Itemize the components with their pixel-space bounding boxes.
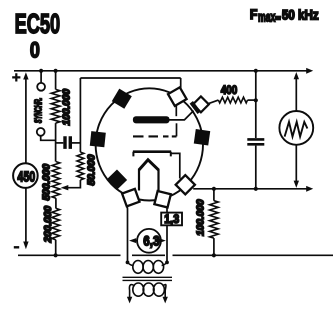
plus sign — [12, 73, 20, 81]
terminal SYNCHR lower — [37, 128, 45, 136]
grid riser lower segment — [176, 123, 178, 136]
svg-text:=: = — [276, 13, 281, 23]
pin 7 white lower-right (cathode) — [176, 175, 195, 194]
cathode end ticks — [133, 152, 170, 157]
wire left rail lower segment — [25, 188, 27, 242]
arrow 6,3 left — [134, 240, 138, 242]
svg-text:EC50: EC50 — [15, 8, 61, 39]
cathode lead to pin — [171, 153, 180, 178]
pin 9 white bottom-left (heater) — [122, 189, 139, 206]
pin 4 black right — [194, 129, 210, 145]
wire pin6 to R5 — [208, 100, 219, 104]
svg-text:500.000: 500.000 — [42, 164, 53, 201]
svg-text:50 kHz: 50 kHz — [282, 8, 319, 23]
svg-text:100.000: 100.000 — [61, 89, 72, 126]
wire mid line to R6 — [213, 189, 215, 201]
node top rail / synchr terminal — [39, 69, 43, 73]
anode lead to pin — [169, 111, 194, 120]
box 1,3 V — [161, 213, 182, 226]
wire rail to synchr terminal — [40, 71, 42, 83]
wire R2 to R3 — [55, 198, 57, 208]
transformer T1 mains winding — [133, 283, 144, 296]
node R5 / C2 branch — [254, 98, 258, 102]
resistor R1 100.000 — [51, 89, 60, 123]
capacitor C2 — [247, 139, 264, 144]
grid riser upper stub — [175, 106, 177, 116]
svg-text:1,3: 1,3 — [164, 214, 179, 227]
svg-text:50.000: 50.000 — [86, 154, 97, 185]
arrow mains lead right — [163, 297, 168, 304]
node top rail / C2 branch — [254, 69, 258, 73]
wire M1 down to mid line with arrow — [295, 145, 297, 181]
svg-text:450: 450 — [17, 168, 35, 185]
transformer T1 heater winding — [126, 261, 130, 265]
arrow 6,3 right — [161, 240, 163, 242]
capacitor C1 — [65, 136, 70, 149]
pin 2 black left — [90, 131, 106, 147]
wire M1 up to rail with arrow — [295, 79, 297, 111]
pin 1 black top-left — [112, 89, 132, 109]
svg-text:F: F — [250, 6, 258, 22]
node R6 / bottom rail — [212, 253, 216, 257]
wire R5 to C2 node — [248, 99, 256, 101]
node top rail / R1 — [54, 69, 58, 73]
heater supply 6,3 V circle — [137, 229, 161, 253]
arrow down at bottom of left rail — [23, 242, 28, 250]
arrow mains lead left — [127, 297, 132, 304]
terminal SYNCHR upper — [37, 83, 45, 91]
arrow up at top of left rail — [23, 72, 28, 79]
resistor R4 50.000 — [77, 152, 84, 180]
potentiometer R2 500.000 — [52, 162, 60, 199]
resistor R3 200.000 — [52, 208, 60, 239]
node R3 / bottom rail — [54, 253, 58, 257]
transformer T1 core — [123, 277, 173, 280]
resistor R6 100.000 — [210, 201, 219, 238]
battery B1 450 V circle — [13, 163, 38, 188]
meter M1 sawtooth indicator — [279, 111, 313, 145]
wire rail down to C2 — [255, 71, 257, 138]
node C2 / mid line — [254, 187, 258, 191]
anode plate bar — [133, 116, 170, 123]
wire bottom rail — [18, 254, 333, 256]
wire pin8 heater lead right — [166, 207, 168, 213]
grid cap black bar — [191, 102, 199, 112]
svg-text:max: max — [258, 10, 276, 26]
wire node A to capacitor C1 — [56, 142, 64, 144]
resistor R5 400 — [218, 97, 247, 103]
svg-text:SYNCHR.: SYNCHR. — [31, 98, 43, 124]
wire left rail upper segment — [25, 79, 27, 164]
pin 3 black lower-left — [106, 169, 127, 190]
wire C1 to 50k branch — [72, 142, 81, 144]
grid dashed electrode — [133, 135, 177, 137]
wire R6 to bottom rail — [213, 238, 215, 255]
wire rail to R1 — [55, 71, 57, 90]
tube V1 envelope — [96, 88, 203, 200]
arrow wiper into R2 — [61, 185, 69, 190]
node mid line / R6 — [212, 187, 216, 191]
wire pin9 heater lead left — [126, 206, 129, 262]
arrow right end of mid line — [306, 186, 313, 192]
heater filament tent — [139, 160, 159, 170]
wire C2 to mid line — [255, 146, 257, 189]
wire R1 to node A — [55, 123, 57, 162]
wire 50k branch vertical — [79, 78, 81, 152]
pin 8 white bottom-right (heater) — [154, 191, 170, 207]
wire below 1,3 box — [166, 225, 168, 262]
wire R3 to bottom rail — [55, 240, 57, 256]
wire synchr lower terminal to node A — [41, 136, 56, 140]
arrow right end of top rail — [306, 68, 313, 74]
wire mid line (cathode output) — [193, 188, 307, 190]
wire top supply rail (+) — [14, 70, 307, 72]
cathode bar — [133, 150, 171, 153]
svg-text:6,3: 6,3 — [143, 232, 159, 248]
svg-text:400: 400 — [221, 84, 238, 97]
minus sign — [14, 246, 19, 248]
svg-text:100.000: 100.000 — [196, 199, 207, 236]
wire R4 to wiper — [63, 180, 81, 188]
wire grid feed top (y78) — [80, 78, 180, 91]
pin 5 white top (grid) — [168, 87, 187, 106]
svg-text:0: 0 — [30, 39, 40, 63]
svg-text:200.000: 200.000 — [43, 206, 54, 244]
pin 6 white anode top cap — [193, 96, 209, 112]
